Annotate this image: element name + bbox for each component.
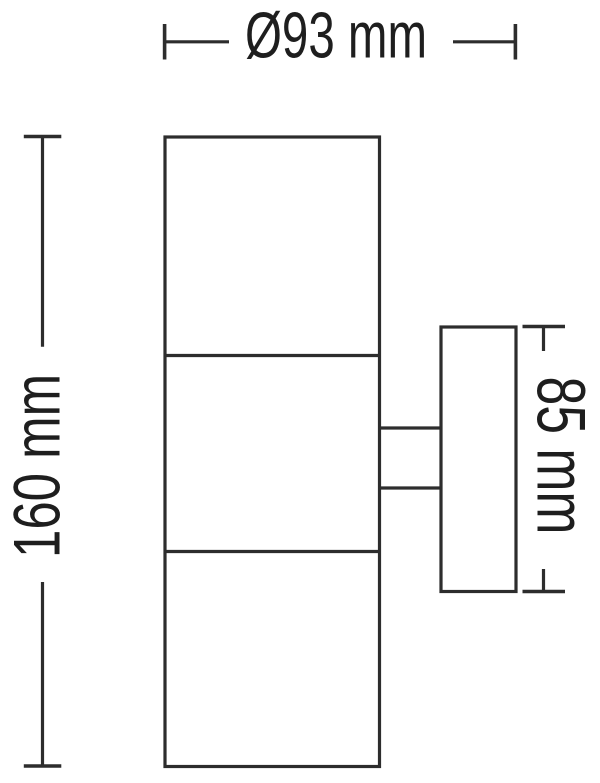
wall plate outline [441, 327, 516, 592]
svg-text:Ø93 mm: Ø93 mm [245, 0, 427, 72]
body divider upper [165, 354, 380, 357]
body divider lower [165, 550, 380, 553]
label height 160 mm [0, 374, 74, 558]
dim top: right line [453, 40, 515, 43]
label diameter 93 mm [245, 0, 427, 72]
dim top: left tick [163, 24, 167, 60]
dim right: bottom tick [523, 590, 566, 594]
dim left: lower line [41, 582, 44, 766]
dim left: upper line [41, 137, 44, 347]
mounting arm bottom [380, 486, 442, 489]
dim right: upper stub [542, 327, 545, 352]
dim right: lower stub [542, 569, 545, 592]
lamp body outline [165, 137, 380, 767]
label plate height 85 mm [523, 377, 600, 535]
svg-text:160 mm: 160 mm [0, 374, 74, 558]
dim top: right tick [514, 24, 518, 60]
dim right: top tick [523, 325, 566, 329]
mounting arm top [380, 426, 442, 429]
dim left: bottom tick [24, 764, 62, 768]
svg-text:85 mm: 85 mm [523, 377, 600, 535]
dim top: left line [165, 40, 229, 43]
dim left: top tick [24, 135, 62, 139]
